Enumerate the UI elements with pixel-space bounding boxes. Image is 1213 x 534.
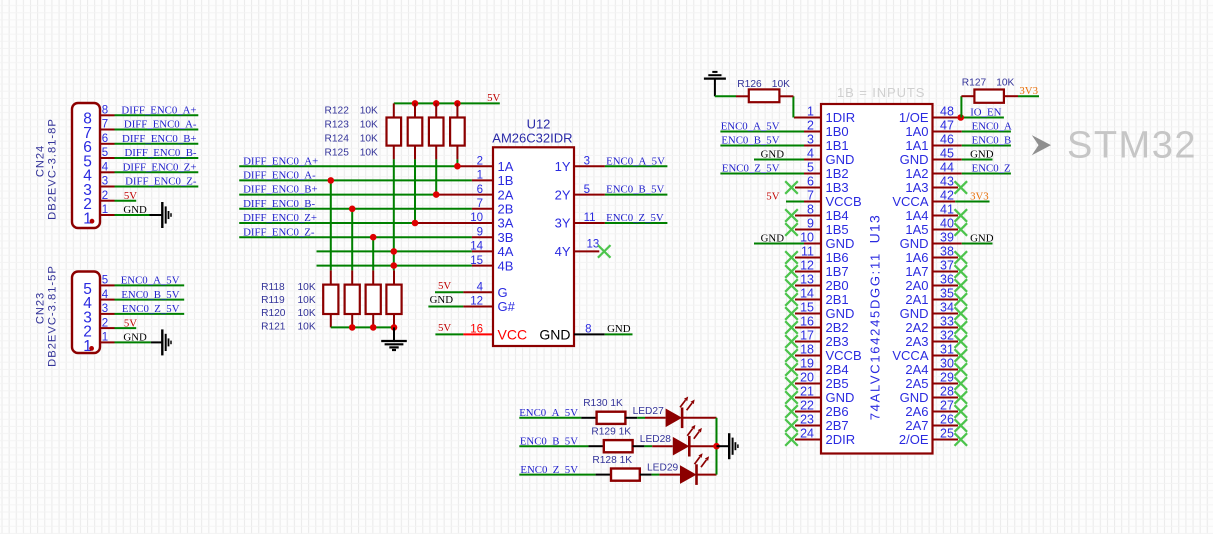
svg-text:ENC0_B_5V: ENC0_B_5V — [721, 135, 779, 147]
svg-text:7: 7 — [477, 198, 483, 210]
svg-text:R129 1K: R129 1K — [591, 427, 631, 438]
svg-text:10: 10 — [470, 212, 483, 224]
svg-text:1B6: 1B6 — [826, 250, 849, 265]
svg-text:DIFF_ENC0_B+: DIFF_ENC0_B+ — [122, 133, 196, 145]
svg-text:10K: 10K — [772, 79, 790, 90]
svg-text:GND: GND — [607, 323, 631, 335]
svg-text:2: 2 — [102, 190, 108, 202]
svg-text:5V: 5V — [766, 191, 779, 203]
svg-text:ENC0_A_5V: ENC0_A_5V — [721, 121, 780, 133]
svg-text:1A6: 1A6 — [905, 250, 928, 265]
svg-text:ENC0_B: ENC0_B — [972, 135, 1012, 147]
svg-text:1DIR: 1DIR — [826, 110, 856, 125]
svg-text:GND: GND — [826, 152, 855, 167]
svg-text:5V: 5V — [124, 317, 137, 329]
svg-text:1Y: 1Y — [555, 159, 571, 174]
svg-text:6: 6 — [102, 133, 108, 145]
svg-text:2A4: 2A4 — [905, 362, 928, 377]
svg-text:2B1: 2B1 — [826, 292, 849, 307]
svg-text:VCCA: VCCA — [892, 194, 928, 209]
svg-text:1B4: 1B4 — [826, 208, 849, 223]
svg-text:ENC0_B_5V: ENC0_B_5V — [121, 289, 179, 301]
svg-text:2B4: 2B4 — [826, 362, 849, 377]
svg-text:G#: G# — [498, 299, 516, 314]
svg-text:10K: 10K — [298, 321, 316, 332]
svg-text:5V: 5V — [438, 280, 451, 292]
svg-text:DB2EVC-3.81-5P: DB2EVC-3.81-5P — [47, 265, 59, 367]
svg-text:ENC0_A_5V: ENC0_A_5V — [121, 275, 180, 287]
svg-text:4A: 4A — [498, 244, 514, 259]
svg-text:1A: 1A — [498, 159, 514, 174]
svg-text:R122: R122 — [325, 106, 350, 117]
svg-text:GND: GND — [123, 332, 147, 344]
svg-text:GND: GND — [970, 233, 994, 245]
svg-text:DIFF_ENC0_B+: DIFF_ENC0_B+ — [243, 184, 317, 196]
svg-text:2A6: 2A6 — [905, 404, 928, 419]
svg-text:4: 4 — [102, 162, 109, 174]
svg-text:10K: 10K — [996, 77, 1014, 88]
svg-text:2A1: 2A1 — [905, 292, 928, 307]
svg-text:2A7: 2A7 — [905, 418, 928, 433]
svg-text:1B3: 1B3 — [826, 180, 849, 195]
svg-text:DIFF_ENC0_A-: DIFF_ENC0_A- — [124, 119, 197, 131]
svg-text:GND: GND — [900, 236, 929, 251]
svg-text:2A3: 2A3 — [905, 334, 928, 349]
svg-text:2B6: 2B6 — [826, 404, 849, 419]
svg-text:2/OE: 2/OE — [899, 432, 929, 447]
svg-text:ENC0_B_5V: ENC0_B_5V — [606, 184, 664, 196]
svg-text:GND: GND — [900, 390, 929, 405]
svg-text:IO_EN: IO_EN — [970, 107, 1001, 119]
svg-text:2B0: 2B0 — [826, 278, 849, 293]
svg-text:3B: 3B — [498, 230, 514, 245]
svg-text:DIFF_ENC0_A+: DIFF_ENC0_A+ — [243, 155, 318, 167]
svg-text:1B0: 1B0 — [826, 124, 849, 139]
svg-text:4Y: 4Y — [555, 244, 571, 259]
svg-text:R128 1K: R128 1K — [592, 455, 632, 466]
svg-text:R127: R127 — [962, 77, 987, 88]
svg-text:CN23: CN23 — [35, 292, 47, 324]
svg-text:LED27: LED27 — [633, 406, 664, 417]
svg-text:2B5: 2B5 — [826, 376, 849, 391]
svg-text:5V: 5V — [124, 190, 137, 202]
svg-text:ENC0_Z: ENC0_Z — [972, 163, 1011, 175]
svg-text:DIFF_ENC0_A+: DIFF_ENC0_A+ — [121, 105, 196, 117]
svg-text:1A0: 1A0 — [905, 124, 928, 139]
svg-text:2A0: 2A0 — [905, 278, 928, 293]
svg-text:G: G — [498, 285, 508, 300]
svg-text:2B2: 2B2 — [826, 320, 849, 335]
svg-text:12: 12 — [470, 296, 483, 308]
svg-text:1A1: 1A1 — [905, 138, 928, 153]
svg-text:3: 3 — [102, 303, 108, 315]
svg-text:R123: R123 — [325, 120, 350, 131]
svg-text:U12: U12 — [527, 117, 551, 132]
svg-text:3V3: 3V3 — [970, 191, 989, 203]
svg-text:U13: U13 — [867, 214, 883, 243]
svg-text:4: 4 — [102, 289, 109, 301]
svg-text:1A2: 1A2 — [905, 166, 928, 181]
svg-text:ENC0_Z_5V: ENC0_Z_5V — [722, 163, 780, 175]
svg-text:VCCA: VCCA — [892, 348, 928, 363]
svg-text:74ALVC164245DGG:11: 74ALVC164245DGG:11 — [868, 252, 883, 420]
svg-text:10K: 10K — [360, 106, 378, 117]
svg-text:1A4: 1A4 — [905, 208, 928, 223]
svg-text:AM26C32IDR: AM26C32IDR — [492, 131, 572, 146]
svg-text:R118: R118 — [261, 282, 285, 293]
svg-text:VCCB: VCCB — [826, 194, 862, 209]
svg-text:GND: GND — [970, 149, 994, 161]
svg-text:DIFF_ENC0_Z+: DIFF_ENC0_Z+ — [243, 212, 317, 224]
svg-text:1B7: 1B7 — [826, 264, 849, 279]
svg-text:7: 7 — [102, 119, 108, 131]
svg-text:10K: 10K — [298, 308, 316, 319]
svg-text:10K: 10K — [298, 295, 316, 306]
svg-text:GND: GND — [539, 326, 570, 342]
svg-text:10K: 10K — [360, 148, 378, 159]
svg-text:DIFF_ENC0_B-: DIFF_ENC0_B- — [243, 198, 315, 210]
svg-text:DIFF_ENC0_B-: DIFF_ENC0_B- — [125, 147, 197, 159]
svg-text:2: 2 — [102, 317, 108, 329]
svg-text:3A: 3A — [498, 216, 514, 231]
svg-text:10K: 10K — [298, 282, 316, 293]
svg-text:R125: R125 — [325, 148, 350, 159]
svg-text:1: 1 — [102, 332, 108, 344]
svg-text:3Y: 3Y — [555, 216, 571, 231]
svg-text:11: 11 — [584, 212, 596, 224]
svg-text:10K: 10K — [360, 134, 378, 145]
svg-text:ENC0_A: ENC0_A — [972, 121, 1012, 133]
svg-text:3: 3 — [584, 155, 590, 167]
svg-text:STM32: STM32 — [1067, 125, 1197, 167]
svg-text:GND: GND — [826, 306, 855, 321]
svg-text:ENC0_A_5V: ENC0_A_5V — [606, 155, 665, 167]
svg-text:1A7: 1A7 — [905, 264, 928, 279]
svg-text:1: 1 — [83, 210, 92, 227]
svg-text:5V: 5V — [487, 92, 500, 104]
svg-text:2B3: 2B3 — [826, 334, 849, 349]
svg-text:2: 2 — [477, 155, 483, 167]
svg-text:5: 5 — [102, 275, 108, 287]
svg-text:1A3: 1A3 — [905, 180, 928, 195]
svg-text:DIFF_ENC0_Z-: DIFF_ENC0_Z- — [243, 226, 315, 238]
svg-text:14: 14 — [470, 241, 483, 253]
svg-text:1: 1 — [102, 204, 108, 216]
svg-text:LED28: LED28 — [640, 434, 671, 445]
svg-text:R121: R121 — [261, 321, 286, 332]
svg-text:DIFF_ENC0_A-: DIFF_ENC0_A- — [243, 170, 316, 182]
svg-text:1B: 1B — [498, 173, 514, 188]
svg-text:R130 1K: R130 1K — [583, 398, 623, 409]
svg-text:10K: 10K — [360, 120, 378, 131]
svg-text:9: 9 — [477, 226, 483, 238]
svg-text:GND: GND — [123, 204, 147, 216]
svg-text:1/OE: 1/OE — [899, 110, 929, 125]
svg-text:1A5: 1A5 — [905, 222, 928, 237]
svg-text:GND: GND — [900, 152, 929, 167]
svg-text:3: 3 — [102, 176, 108, 188]
svg-text:1B2: 1B2 — [826, 166, 849, 181]
svg-text:DIFF_ENC0_Z+: DIFF_ENC0_Z+ — [123, 162, 197, 174]
svg-text:R126: R126 — [737, 79, 762, 90]
svg-text:GND: GND — [900, 306, 929, 321]
svg-text:1B = INPUTS: 1B = INPUTS — [837, 85, 925, 100]
svg-text:2B7: 2B7 — [826, 418, 849, 433]
svg-text:13: 13 — [587, 238, 600, 250]
svg-text:R120: R120 — [261, 308, 286, 319]
svg-text:5V: 5V — [438, 322, 451, 334]
svg-text:3V3: 3V3 — [1019, 85, 1038, 97]
svg-text:2A5: 2A5 — [905, 376, 928, 391]
svg-text:2DIR: 2DIR — [826, 432, 856, 447]
svg-text:5: 5 — [102, 147, 108, 159]
svg-text:4B: 4B — [498, 258, 514, 273]
svg-text:8: 8 — [585, 324, 591, 336]
svg-text:GND: GND — [761, 233, 785, 245]
svg-text:ENC0_Z_5V: ENC0_Z_5V — [606, 212, 664, 224]
svg-text:8: 8 — [102, 105, 108, 117]
svg-text:2A: 2A — [498, 187, 514, 202]
svg-text:2Y: 2Y — [555, 187, 571, 202]
svg-text:16: 16 — [470, 324, 483, 336]
svg-text:CN24: CN24 — [35, 145, 47, 177]
svg-text:VCCB: VCCB — [826, 348, 862, 363]
svg-text:GND: GND — [430, 294, 454, 306]
svg-text:5: 5 — [584, 184, 590, 196]
svg-text:2B: 2B — [498, 202, 514, 217]
svg-text:R119: R119 — [261, 295, 285, 306]
svg-text:GND: GND — [761, 149, 785, 161]
svg-text:6: 6 — [477, 184, 483, 196]
svg-text:GND: GND — [826, 236, 855, 251]
svg-text:15: 15 — [470, 255, 483, 267]
svg-text:1B1: 1B1 — [826, 138, 849, 153]
svg-text:R124: R124 — [325, 134, 350, 145]
svg-text:VCC: VCC — [498, 326, 528, 342]
svg-text:LED29: LED29 — [647, 463, 678, 474]
svg-text:1: 1 — [477, 170, 483, 182]
svg-text:ENC0_Z_5V: ENC0_Z_5V — [122, 303, 180, 315]
svg-text:DIFF_ENC0_Z-: DIFF_ENC0_Z- — [125, 176, 197, 188]
svg-text:GND: GND — [826, 390, 855, 405]
svg-text:4: 4 — [477, 282, 484, 294]
svg-text:DB2EVC-3.81-8P: DB2EVC-3.81-8P — [47, 118, 59, 220]
svg-text:1B5: 1B5 — [826, 222, 849, 237]
svg-text:2A2: 2A2 — [905, 320, 928, 335]
